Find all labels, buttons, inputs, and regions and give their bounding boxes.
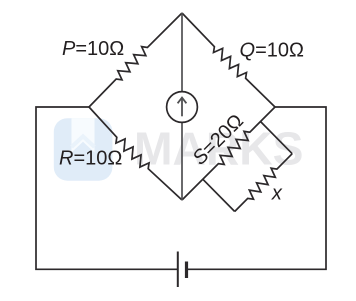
resistor R arm bbox=[89, 107, 182, 200]
galvanometer circle bbox=[167, 92, 198, 123]
resistor x bbox=[235, 154, 293, 212]
wire: left loop with battery gap bbox=[36, 107, 178, 269]
watermark logo bbox=[54, 118, 113, 181]
svg-text:x: x bbox=[271, 182, 283, 204]
galvanometer arrow bbox=[178, 98, 187, 117]
svg-text:Q=10Ω: Q=10Ω bbox=[240, 39, 304, 61]
wire: right loop bbox=[187, 107, 327, 269]
resistor P arm bbox=[89, 13, 182, 107]
battery long plate bbox=[177, 252, 179, 288]
wire: galvanometer bottom lead bbox=[181, 122, 183, 200]
svg-text:P=10Ω: P=10Ω bbox=[62, 38, 124, 60]
resistor S arm bbox=[182, 107, 275, 200]
resistor Q arm bbox=[182, 13, 275, 107]
wire: galvanometer top lead bbox=[181, 13, 183, 92]
battery short plate bbox=[185, 262, 188, 279]
wire: x branch lead right bbox=[261, 122, 293, 154]
svg-text:R=10Ω: R=10Ω bbox=[59, 148, 122, 170]
wire: x branch lead left bbox=[203, 179, 235, 211]
